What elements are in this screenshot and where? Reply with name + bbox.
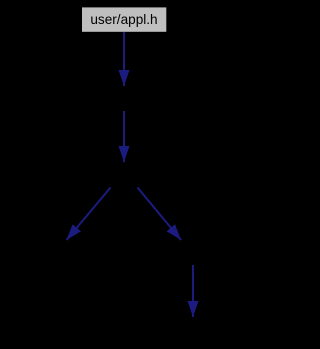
wire arrow E xyxy=(192,265,194,317)
node user/appl.h xyxy=(82,7,166,31)
wire arrow C xyxy=(67,188,111,241)
svg-text:user/appl.h: user/appl.h xyxy=(90,12,157,27)
wire arrow B xyxy=(123,111,125,162)
wire arrow A xyxy=(123,32,125,86)
wire arrow D xyxy=(138,188,182,241)
